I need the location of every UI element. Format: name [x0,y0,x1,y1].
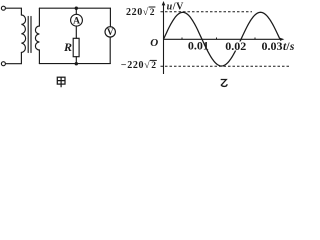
transformer core [28,17,31,53]
dashed peak level line [161,11,253,13]
wire secondary top rail [39,7,110,9]
ammeter A1 [71,14,83,26]
svg-text:R: R [63,40,72,54]
resistor R box [73,38,79,56]
svg-text:√: √ [144,60,150,71]
wire voltmeter to bottom rail [39,37,110,64]
transformer secondary winding [35,8,39,63]
svg-text:A: A [73,16,80,26]
svg-text:u/V: u/V [167,2,185,13]
wire right branch down to voltmeter [109,8,111,27]
label -220sqrt2 [121,60,157,71]
node junction bottom [75,62,78,65]
wire resistor to bottom junction [75,57,77,64]
svg-text:0.01: 0.01 [188,38,209,52]
terminal bottom-left [1,62,5,66]
svg-text:0.03: 0.03 [262,39,283,53]
wire primary coil to bottom terminal [6,53,22,64]
wire top terminal to primary coil [6,8,22,15]
svg-text:√: √ [143,7,149,18]
wire ammeter to resistor [75,26,77,38]
y-axis arrowhead [162,1,166,5]
x-axis ticks [182,38,255,40]
dashed trough level line [161,65,291,67]
tick label 0.02 backing [225,42,247,51]
svg-text:2: 2 [150,8,155,18]
terminal top-left [1,6,5,10]
svg-text:2: 2 [151,61,156,71]
svg-text:t/s: t/s [283,41,295,53]
svg-text:V: V [107,27,114,37]
transformer primary winding [21,15,25,53]
svg-text:220: 220 [126,7,143,18]
svg-text:0.02: 0.02 [225,39,246,53]
svg-text:220: 220 [127,60,144,71]
caption yi (right figure) [221,80,228,87]
node junction top [75,7,78,10]
sine curve u(t) [164,12,281,66]
wire stub top junction to ammeter [75,8,77,14]
x-axis arrowhead [280,38,284,41]
label 220sqrt2 [126,7,155,18]
caption jia (left figure) [57,77,65,87]
graph y-axis [163,3,165,74]
graph x-axis [164,38,283,40]
svg-text:−: − [121,60,127,71]
voltmeter V1 [105,27,115,37]
svg-text:O: O [150,37,158,49]
